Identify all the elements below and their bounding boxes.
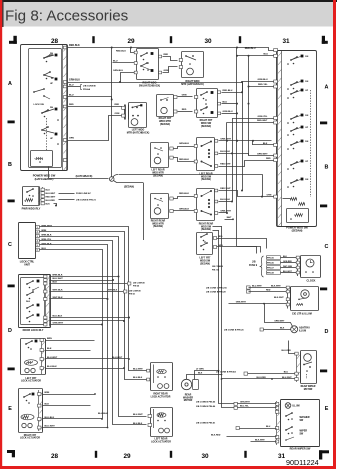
svg-text:MTR (HATCHBACK): MTR (HATCHBACK) bbox=[127, 132, 150, 135]
svg-text:GRN-BLK: GRN-BLK bbox=[179, 143, 190, 145]
svg-text:PIN 21: PIN 21 bbox=[129, 293, 136, 295]
svg-text:DN: DN bbox=[305, 141, 309, 143]
svg-text:BLU-BLK: BLU-BLK bbox=[45, 417, 55, 419]
svg-text:BLU: BLU bbox=[266, 426, 271, 428]
svg-text:LEFT REAR: LEFT REAR bbox=[155, 437, 168, 440]
svg-text:BLK: BLK bbox=[45, 403, 50, 405]
svg-text:MOTOR: MOTOR bbox=[184, 400, 193, 402]
svg-text:RED: RED bbox=[164, 54, 169, 56]
svg-text:LOCK ACTUATOR: LOCK ACTUATOR bbox=[20, 437, 40, 440]
svg-text:CIG LTR & ILLUM: CIG LTR & ILLUM bbox=[292, 312, 312, 315]
svg-text:BLU-WHT: BLU-WHT bbox=[282, 377, 292, 379]
svg-text:GRN: GRN bbox=[182, 95, 187, 97]
svg-text:WDO SW: WDO SW bbox=[200, 261, 211, 263]
svg-text:GRN-BLU: GRN-BLU bbox=[69, 79, 80, 82]
svg-text:BLU-RED: BLU-RED bbox=[282, 350, 292, 352]
svg-text:ORN: ORN bbox=[115, 113, 120, 115]
svg-text:J/B CONN B: J/B CONN B bbox=[212, 266, 224, 268]
svg-text:B: B bbox=[325, 165, 329, 171]
svg-text:5: 5 bbox=[37, 245, 38, 247]
svg-text:Fig 8: Accessories: Fig 8: Accessories bbox=[5, 8, 129, 25]
svg-text:(SEDAN): (SEDAN) bbox=[160, 123, 170, 126]
svg-text:A: A bbox=[8, 81, 12, 87]
svg-text:ORN: ORN bbox=[69, 138, 74, 140]
svg-text:J/B CONN B PIN #8: J/B CONN B PIN #8 bbox=[206, 291, 226, 293]
svg-text:E: E bbox=[8, 406, 12, 412]
svg-text:RED-BLK: RED-BLK bbox=[179, 159, 189, 161]
svg-text:BLU-WHT: BLU-WHT bbox=[283, 271, 293, 273]
svg-text:BLU-WHT: BLU-WHT bbox=[133, 368, 143, 370]
svg-text:J/B CONN B PIN A9: J/B CONN B PIN A9 bbox=[216, 370, 237, 373]
svg-text:LOCK ACTUATOR: LOCK ACTUATOR bbox=[21, 380, 41, 383]
svg-text:DN: DN bbox=[305, 179, 309, 181]
svg-text:POWER WDO SW: POWER WDO SW bbox=[33, 174, 56, 178]
svg-text:ASHTRAY: ASHTRAY bbox=[299, 326, 310, 329]
svg-text:WASHER: WASHER bbox=[183, 396, 193, 399]
svg-text:RIGHT FRT: RIGHT FRT bbox=[24, 435, 37, 437]
svg-text:BLU: BLU bbox=[113, 61, 118, 63]
svg-text:RED-WHT: RED-WHT bbox=[220, 164, 231, 166]
svg-text:MTR (HATCHBACK): MTR (HATCHBACK) bbox=[181, 83, 204, 86]
svg-text:GRN-WHT: GRN-WHT bbox=[220, 211, 231, 213]
svg-text:BLU-WHT: BLU-WHT bbox=[252, 285, 262, 287]
svg-text:J/B CONN E PIN 21: J/B CONN E PIN 21 bbox=[76, 200, 97, 202]
svg-text:DN: DN bbox=[305, 81, 309, 83]
svg-text:BLK: BLK bbox=[46, 203, 51, 205]
svg-text:GRN-RED: GRN-RED bbox=[283, 261, 292, 263]
svg-text:WASHER: WASHER bbox=[300, 416, 310, 419]
svg-text:30: 30 bbox=[201, 453, 209, 460]
svg-text:2: 2 bbox=[37, 232, 38, 234]
svg-text:BLU: BLU bbox=[223, 101, 228, 103]
svg-text:BLU-WHT: BLU-WHT bbox=[133, 414, 143, 416]
svg-text:BLU-RED: BLU-RED bbox=[257, 377, 267, 379]
svg-text:RED-WHT: RED-WHT bbox=[220, 188, 231, 190]
svg-text:RED-BLU: RED-BLU bbox=[223, 90, 233, 92]
svg-text:J/B CONN B PIN #5: J/B CONN B PIN #5 bbox=[224, 330, 244, 332]
svg-text:GRN-WHT: GRN-WHT bbox=[274, 321, 285, 323]
svg-text:FUSE 9: FUSE 9 bbox=[249, 265, 258, 267]
svg-text:RIGHT REAR: RIGHT REAR bbox=[199, 222, 214, 225]
svg-text:UNIT: UNIT bbox=[24, 264, 30, 267]
svg-text:GRN-BLK: GRN-BLK bbox=[179, 209, 190, 211]
svg-text:LOCK SW: LOCK SW bbox=[34, 104, 45, 106]
svg-text:REAR WIPER SW: REAR WIPER SW bbox=[290, 447, 311, 450]
svg-text:BLK: BLK bbox=[198, 373, 203, 375]
svg-text:J/B CONN B: J/B CONN B bbox=[133, 282, 145, 284]
svg-text:WDO MTR: WDO MTR bbox=[152, 173, 164, 175]
svg-text:BLK: BLK bbox=[47, 348, 52, 350]
svg-text:BLU-WHT: BLU-WHT bbox=[46, 193, 56, 195]
svg-text:RED-BLK: RED-BLK bbox=[179, 193, 189, 195]
svg-text:RED: RED bbox=[266, 289, 271, 291]
svg-text:(SEDAN): (SEDAN) bbox=[153, 225, 163, 228]
svg-text:BLU-BLK: BLU-BLK bbox=[133, 377, 143, 379]
svg-text:31: 31 bbox=[278, 453, 286, 460]
svg-text:REAR: REAR bbox=[185, 393, 192, 396]
svg-text:J/B CONN C PIN #16: J/B CONN C PIN #16 bbox=[206, 287, 228, 289]
svg-text:BLK-RED: BLK-RED bbox=[211, 434, 221, 436]
svg-text:BRN-BLK: BRN-BLK bbox=[42, 234, 52, 236]
svg-text:(SEDAN): (SEDAN) bbox=[201, 228, 211, 231]
svg-text:(SEDAN): (SEDAN) bbox=[201, 125, 211, 128]
svg-text:29: 29 bbox=[127, 38, 135, 45]
svg-text:J/B: J/B bbox=[252, 262, 256, 264]
svg-text:BLK-WHT: BLK-WHT bbox=[255, 439, 265, 441]
svg-text:D: D bbox=[325, 329, 329, 335]
svg-text:RIGHT REAR: RIGHT REAR bbox=[151, 219, 166, 222]
svg-text:BLU-BLK: BLU-BLK bbox=[133, 423, 143, 425]
svg-text:WHT-GRN: WHT-GRN bbox=[283, 266, 293, 268]
svg-text:PIN 26: PIN 26 bbox=[133, 285, 140, 287]
svg-text:J/B CONN B: J/B CONN B bbox=[129, 290, 141, 292]
svg-text:BLU-BLK: BLU-BLK bbox=[98, 413, 108, 415]
svg-text:(SEDAN): (SEDAN) bbox=[153, 174, 163, 177]
svg-text:BLU: BLU bbox=[69, 84, 74, 86]
svg-text:J/B CONN B PIN A1: J/B CONN B PIN A1 bbox=[196, 421, 216, 424]
svg-text:WDO SW: WDO SW bbox=[201, 176, 212, 178]
svg-text:PIN A4: PIN A4 bbox=[83, 88, 91, 91]
svg-text:CLOCK: CLOCK bbox=[307, 280, 316, 283]
svg-text:DLK: DLK bbox=[26, 301, 31, 303]
svg-text:RIGHT REAR: RIGHT REAR bbox=[153, 392, 168, 395]
svg-text:LEFT REAR: LEFT REAR bbox=[199, 172, 212, 175]
svg-text:(SEDAN): (SEDAN) bbox=[201, 178, 211, 181]
svg-text:-WHT: -WHT bbox=[226, 217, 232, 219]
svg-text:BLU-WHT: BLU-WHT bbox=[112, 357, 123, 359]
svg-text:C: C bbox=[325, 244, 329, 250]
svg-text:BLU-BLK: BLU-BLK bbox=[220, 199, 230, 201]
svg-text:1: 1 bbox=[37, 227, 38, 229]
svg-text:GRN-WHT: GRN-WHT bbox=[236, 301, 247, 303]
svg-text:(SEDAN): (SEDAN) bbox=[292, 229, 303, 233]
svg-text:RED-BLK: RED-BLK bbox=[69, 44, 80, 47]
svg-text:E: E bbox=[325, 406, 329, 412]
svg-text:28: 28 bbox=[51, 453, 59, 460]
svg-text:LEFT FRT: LEFT FRT bbox=[26, 378, 38, 380]
svg-text:GRN-BLU: GRN-BLU bbox=[223, 111, 234, 113]
svg-text:RED: RED bbox=[182, 109, 187, 111]
svg-text:RED: RED bbox=[266, 158, 271, 160]
svg-text:WHT-BLK: WHT-BLK bbox=[108, 289, 118, 291]
svg-text:BLU: BLU bbox=[69, 95, 74, 97]
svg-text:LOCK ACTUATOR: LOCK ACTUATOR bbox=[151, 440, 171, 443]
svg-text:29: 29 bbox=[123, 453, 131, 460]
svg-text:BLU-WHT: BLU-WHT bbox=[45, 425, 56, 427]
svg-text:DN: DN bbox=[50, 107, 54, 109]
svg-text:WDO SW: WDO SW bbox=[201, 226, 212, 228]
svg-text:BLK: BLK bbox=[263, 143, 268, 145]
svg-text:BLU: BLU bbox=[284, 371, 289, 373]
svg-text:GRN: GRN bbox=[164, 70, 169, 72]
svg-text:LT GRN: LT GRN bbox=[196, 369, 204, 371]
svg-text:3: 3 bbox=[37, 236, 38, 238]
svg-text:J/B CONN B: J/B CONN B bbox=[83, 86, 96, 88]
svg-text:B: B bbox=[8, 162, 12, 168]
svg-text:PIN #5: PIN #5 bbox=[267, 257, 274, 259]
svg-text:(HATCHBACK): (HATCHBACK) bbox=[35, 177, 54, 181]
svg-text:90D11224: 90D11224 bbox=[286, 458, 319, 467]
svg-text:DN: DN bbox=[305, 56, 309, 58]
svg-text:30: 30 bbox=[204, 38, 212, 45]
svg-text:BLK: BLK bbox=[283, 256, 288, 258]
svg-text:PIN #7: PIN #7 bbox=[267, 267, 274, 269]
svg-text:(HATCHBACK): (HATCHBACK) bbox=[76, 175, 93, 178]
svg-text:BLK-WHT: BLK-WHT bbox=[274, 297, 284, 299]
svg-text:PWR WDO RLY: PWR WDO RLY bbox=[22, 206, 41, 210]
svg-text:RED-YEL: RED-YEL bbox=[258, 84, 268, 86]
svg-text:BLU-WHT: BLU-WHT bbox=[53, 278, 64, 280]
svg-text:BLU: BLU bbox=[46, 190, 51, 192]
svg-text:REAR WIPER: REAR WIPER bbox=[301, 385, 316, 388]
svg-text:FUSE LINE A7: FUSE LINE A7 bbox=[76, 192, 92, 195]
svg-text:GRN-BLU: GRN-BLU bbox=[258, 79, 269, 81]
svg-text:PIN #6: PIN #6 bbox=[267, 262, 274, 264]
svg-text:GRN-YEL: GRN-YEL bbox=[258, 116, 269, 118]
svg-text:6: 6 bbox=[37, 250, 38, 252]
svg-text:GRN-WHT: GRN-WHT bbox=[220, 139, 231, 141]
svg-text:(SEDAN): (SEDAN) bbox=[200, 262, 210, 265]
svg-text:LEFT FRT: LEFT FRT bbox=[200, 258, 212, 260]
svg-text:WDO MTR: WDO MTR bbox=[152, 223, 164, 225]
svg-text:BRN: BRN bbox=[47, 338, 52, 340]
svg-text:LOCK ACTUATOR: LOCK ACTUATOR bbox=[151, 395, 171, 398]
svg-text:BRN: BRN bbox=[45, 392, 50, 394]
svg-text:DN: DN bbox=[305, 115, 309, 117]
svg-text:SW (HATCHBACK): SW (HATCHBACK) bbox=[139, 84, 160, 87]
svg-text:RED-BLU: RED-BLU bbox=[245, 47, 256, 50]
svg-text:BLU: BLU bbox=[264, 54, 269, 56]
svg-text:GRN-WHT: GRN-WHT bbox=[257, 153, 268, 155]
svg-text:4: 4 bbox=[37, 240, 38, 243]
svg-text:LEFT REAR: LEFT REAR bbox=[151, 169, 164, 172]
svg-text:RED-WHT: RED-WHT bbox=[257, 120, 268, 122]
svg-text:GRN-BLU: GRN-BLU bbox=[113, 70, 124, 72]
svg-text:ILLUM: ILLUM bbox=[293, 406, 300, 408]
svg-text:J/B CONN B PIN A6: J/B CONN B PIN A6 bbox=[196, 405, 216, 408]
svg-text:MOTOR: MOTOR bbox=[304, 389, 313, 391]
svg-text:BLU-RED: BLU-RED bbox=[46, 200, 56, 202]
svg-text:31: 31 bbox=[282, 38, 290, 45]
svg-text:A: A bbox=[325, 85, 329, 91]
svg-text:PIN #15: PIN #15 bbox=[212, 269, 219, 271]
svg-text:BLK: BLK bbox=[280, 327, 285, 329]
svg-text:RED: RED bbox=[69, 104, 74, 106]
svg-text:J/B CONN B PIN A5: J/B CONN B PIN A5 bbox=[196, 401, 216, 404]
svg-text:(SEDAN): (SEDAN) bbox=[124, 186, 134, 189]
svg-text:WIPER: WIPER bbox=[300, 431, 308, 433]
svg-text:PIN #8: PIN #8 bbox=[267, 272, 274, 274]
svg-text:C: C bbox=[8, 242, 12, 248]
svg-text:BLU-BLK: BLU-BLK bbox=[47, 366, 57, 368]
svg-text:BLU-YEL: BLU-YEL bbox=[240, 406, 249, 408]
svg-text:GRN-WHT: GRN-WHT bbox=[240, 402, 250, 404]
svg-text:ORN: ORN bbox=[267, 194, 272, 196]
svg-text:RED: RED bbox=[115, 104, 120, 106]
svg-text:ILLUM: ILLUM bbox=[299, 330, 306, 332]
svg-text:D: D bbox=[8, 328, 12, 334]
svg-text:28: 28 bbox=[51, 38, 59, 45]
svg-text:BLK-WHT: BLK-WHT bbox=[271, 285, 281, 287]
svg-text:RED-BLU: RED-BLU bbox=[116, 51, 126, 53]
svg-text:BLU-BLK: BLU-BLK bbox=[220, 151, 230, 153]
svg-text:DOOR LOCK RLY: DOOR LOCK RLY bbox=[23, 329, 44, 332]
svg-text:RED-WHT: RED-WHT bbox=[46, 197, 57, 199]
svg-text:BLU-WHT: BLU-WHT bbox=[47, 357, 58, 359]
